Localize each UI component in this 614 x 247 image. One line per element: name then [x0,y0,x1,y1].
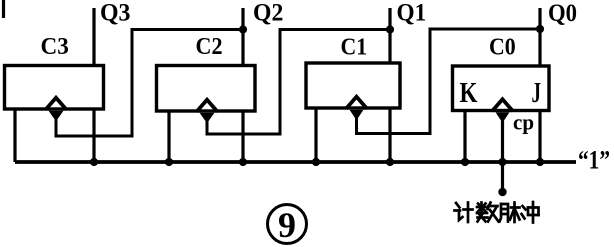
flip-flop C3 [5,66,104,110]
clock wedge C1 [346,97,367,120]
node C2 left on bus [165,158,173,166]
node C1 left on bus [312,158,320,166]
wire C3 right pin to bus [92,109,95,162]
svg-text:Q3: Q3 [100,0,131,27]
node C0 J on bus [536,158,544,166]
node Q1 tap [386,25,394,33]
wire C2 left pin to bus [167,111,170,162]
flip-flop C1 [306,63,400,108]
wire logic-1 bus [15,160,576,164]
flip-flop C0 [453,66,550,111]
node C2 right on bus [239,158,247,166]
svg-text:C0: C0 [489,35,516,61]
flip-flop C2 [157,66,256,112]
svg-text:C2: C2 [196,34,223,60]
wire C1 left pin to bus [314,108,317,162]
char ji [456,203,460,208]
char shu [480,203,483,213]
node count pulse end [498,188,506,196]
wire count pulse input [501,117,504,191]
node Q0 tap [536,25,544,33]
wire C1 right pin to bus [388,108,391,162]
node Q2 tap [239,25,247,33]
wire Q2 to C3 clock [56,30,243,137]
wire C0 K pin to bus [463,111,466,163]
clock wedge C0 [492,99,513,122]
wire Q1 to C2 clock [207,30,390,135]
svg-text:“1”: “1” [578,146,610,175]
node C0 K on bus [461,158,469,166]
clock wedge C3 [46,98,67,121]
svg-text:cp: cp [513,110,534,135]
svg-text:Q2: Q2 [253,0,283,27]
wire Q3 output [92,8,95,66]
wire C3 left pin to bus [13,109,16,162]
clock wedge C2 [197,100,218,123]
node cp crossing on bus [498,158,506,166]
svg-text:C3: C3 [41,34,69,60]
svg-text:K: K [460,78,478,109]
wire Q1 output [388,8,391,63]
border mark top-left [2,0,5,18]
figure number 9 circle [268,205,307,244]
svg-text:9: 9 [278,205,296,245]
wire C2 right pin to bus [241,111,244,162]
wire Q2 output [241,8,244,66]
svg-text:Q1: Q1 [397,0,427,27]
label count pulse (Chinese) [455,202,539,223]
wire Q0 to C1 clock [357,29,541,134]
node C1 right on bus [386,158,394,166]
char mai [501,204,508,222]
wire Q0 output [538,8,541,66]
svg-text:Q0: Q0 [548,0,577,27]
svg-text:J: J [532,78,542,109]
wire C0 J pin to bus [538,111,541,163]
svg-text:C1: C1 [341,35,368,61]
char chong [523,206,526,210]
node C3 right on bus [90,158,98,166]
